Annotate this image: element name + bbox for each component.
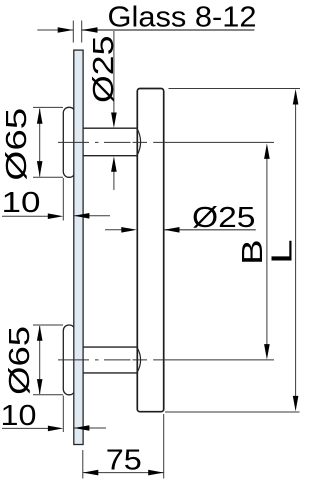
dimension 75: extension lines xyxy=(83,414,164,479)
dimension 10 (top): glass-side arrow xyxy=(74,215,110,217)
dimension Ø25 (bar, middle): left line + arrow xyxy=(105,229,125,231)
dimension 10 (bottom): dim line + right arrow xyxy=(2,427,52,429)
note leader line (underline of Glass 8-12) + arrow xyxy=(82,29,254,31)
standoff cylinder top edges xyxy=(80,128,137,156)
rose (bottom fixing plate) xyxy=(63,325,75,395)
dimension Ø65 (top): extension lines xyxy=(33,107,63,177)
handle bar xyxy=(137,89,163,412)
centerline top xyxy=(58,141,274,143)
svg-text:Ø25: Ø25 xyxy=(192,202,256,234)
dimension Ø25 (top standoff): lower line + up arrow xyxy=(113,168,115,190)
svg-text:10: 10 xyxy=(1,400,37,432)
svg-text:B: B xyxy=(237,239,269,265)
svg-text:Glass 8-12: Glass 8-12 xyxy=(108,1,257,33)
dimension 10 (bottom): extension line xyxy=(62,396,64,433)
dimension Ø25 (top standoff): upper line + down arrow xyxy=(113,31,115,117)
svg-text:L: L xyxy=(266,239,298,264)
cylinder-bar joint arc bottom xyxy=(137,347,141,372)
dimension Ø25 (bar, middle): right leader + arrow xyxy=(164,229,256,231)
dimension Ø65 (bottom): extension lines xyxy=(33,325,63,395)
centerline bottom xyxy=(58,359,274,361)
dimension Ø65 (top): dim line + arrows xyxy=(39,109,41,177)
svg-text:Ø25: Ø25 xyxy=(88,36,120,104)
svg-text:Ø65: Ø65 xyxy=(4,326,36,395)
dimension 75: dim line + arrows xyxy=(83,472,164,474)
glass thickness dimension: left line + arrow xyxy=(37,29,73,31)
dimension L: dim line + arrows xyxy=(295,101,297,400)
dimension B: dim line + arrows xyxy=(266,155,268,348)
dimension 10 (top): extension line xyxy=(62,178,64,221)
dimension 10 (top): dim line + right arrow xyxy=(2,215,52,217)
standoff cylinder bottom edges xyxy=(80,347,137,373)
glass panel xyxy=(74,50,83,444)
dimension L: extension lines xyxy=(165,89,300,413)
svg-text:75: 75 xyxy=(106,445,142,477)
dimension 10 (bottom): glass-side arrow xyxy=(74,427,106,429)
svg-text:Ø65: Ø65 xyxy=(1,108,33,181)
dimension Ø65 (bottom): dim line + arrows xyxy=(39,326,41,394)
rose (top fixing plate) xyxy=(63,107,75,177)
cylinder-bar joint arc top xyxy=(137,128,141,155)
glass thickness dimension: extension lines xyxy=(73,21,81,43)
svg-text:10: 10 xyxy=(2,187,41,219)
